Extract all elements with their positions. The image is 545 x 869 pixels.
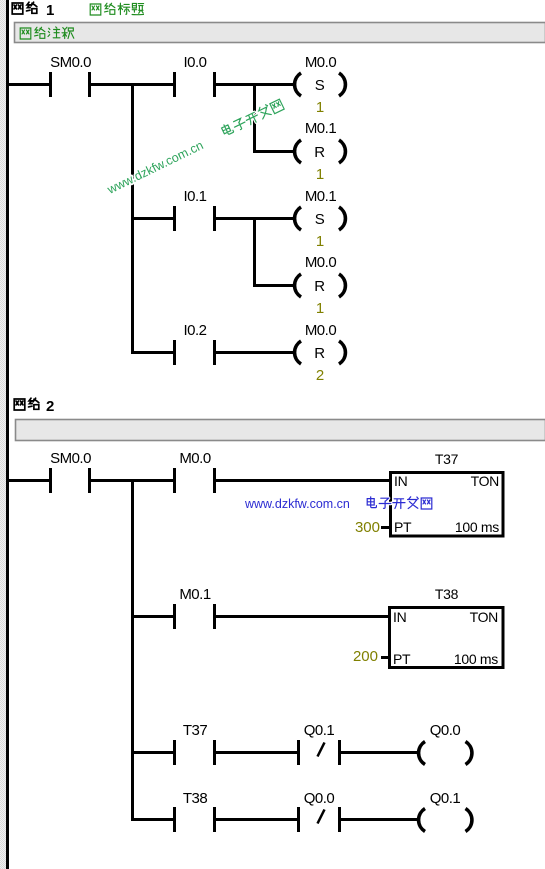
coil M0.0 R arcs row5 xyxy=(295,341,346,364)
network 1 title xyxy=(12,2,37,14)
wire I0.1 to coil M0.1 S xyxy=(216,217,293,220)
svg-text:I0.2: I0.2 xyxy=(183,322,206,339)
coil Q0.0 arcs xyxy=(419,742,472,765)
network 1 subtitle (green) xyxy=(90,3,143,15)
watermark horizontal blue www.dzkfw.com.cn xyxy=(244,497,432,511)
svg-text:IN: IN xyxy=(394,473,407,489)
svg-text:100 ms: 100 ms xyxy=(454,651,498,667)
wire T38 to Q0.0 contact xyxy=(216,818,297,821)
svg-text:1: 1 xyxy=(316,99,324,116)
contact I0.0 bar 2 xyxy=(213,72,216,97)
contact T38 bar 2 xyxy=(213,807,216,832)
svg-text:1: 1 xyxy=(316,300,324,317)
svg-text:1: 1 xyxy=(316,166,324,183)
svg-text:S: S xyxy=(315,77,325,94)
wire branch to T38 contact xyxy=(131,818,173,821)
svg-text:Q0.1: Q0.1 xyxy=(430,790,461,807)
svg-text:www.dzkfw.com.cn: www.dzkfw.com.cn xyxy=(244,497,350,511)
svg-text:T38: T38 xyxy=(435,586,459,602)
wire branch to coil M0.1 R xyxy=(253,150,293,153)
wire M0.0 to timer T37 box xyxy=(216,479,390,482)
wire M0.1 to timer T38 box xyxy=(216,615,390,618)
contact SM0.0 net2 bar 1 xyxy=(49,468,52,493)
left power rail xyxy=(6,0,9,869)
wire rail to SM0.0 xyxy=(9,83,49,86)
contact Q0.0 negated bar 1 xyxy=(297,807,300,832)
svg-text:I0.0: I0.0 xyxy=(183,54,206,71)
wire branch to coil M0.0 R xyxy=(253,284,293,287)
svg-text:Q0.0: Q0.0 xyxy=(304,790,335,807)
contact SM0.0 bar 2 xyxy=(88,72,91,97)
svg-text:M0.0: M0.0 xyxy=(305,54,337,71)
svg-text:PT: PT xyxy=(394,519,412,535)
svg-text:100 ms: 100 ms xyxy=(455,519,499,535)
timer box T37 xyxy=(391,473,504,537)
svg-text:T38: T38 xyxy=(183,790,208,807)
timer T38 texts xyxy=(393,586,498,667)
svg-text:T37: T37 xyxy=(435,451,459,467)
labels network 1 xyxy=(50,54,336,339)
svg-text:Q0.0: Q0.0 xyxy=(430,722,461,739)
coil M0.1 R arcs row2 xyxy=(295,140,346,163)
left gutter checkered strip xyxy=(0,0,6,869)
wire Q0.1 to coil Q0.0 xyxy=(341,751,418,754)
svg-text:TON: TON xyxy=(470,609,498,625)
coil M0.0 S arcs row1 xyxy=(295,73,346,96)
svg-text:SM0.0: SM0.0 xyxy=(50,54,91,71)
branch vertical row1 to M0.1 R row xyxy=(253,83,256,152)
contact SM0.0 bar 1 xyxy=(49,72,52,97)
contact T37 bar 1 xyxy=(173,740,176,765)
wire SM0.0 to I0.0 xyxy=(91,83,173,86)
svg-text:M0.0: M0.0 xyxy=(305,322,337,339)
contact SM0.0 net2 bar 2 xyxy=(88,468,91,493)
timer T37 texts xyxy=(394,451,499,535)
wire I0.0 to coil M0.0 S xyxy=(216,83,293,86)
contact I0.2 bar 1 xyxy=(173,340,176,365)
wire branch to I0.1 xyxy=(131,217,173,220)
timer box T38 xyxy=(390,608,504,668)
svg-text:S: S xyxy=(315,211,325,228)
wire branch to M0.1 xyxy=(131,615,173,618)
contact T37 bar 2 xyxy=(213,740,216,765)
svg-text:1: 1 xyxy=(316,233,324,250)
PT stub wire T37 xyxy=(381,526,390,529)
wire branch to I0.2 xyxy=(131,351,173,354)
network 2 comment box xyxy=(16,420,545,441)
contact M0.1 bar 1 xyxy=(173,604,176,629)
svg-text:M0.0: M0.0 xyxy=(305,254,337,271)
operand values (olive) network 1 xyxy=(316,99,324,384)
wire SM0.0 to M0.0 net2 xyxy=(91,479,173,482)
svg-text:M0.1: M0.1 xyxy=(305,120,337,137)
wire rail to SM0.0 net2 xyxy=(9,479,49,482)
svg-text:200: 200 xyxy=(353,648,378,665)
coil M0.0 R arcs row4 xyxy=(295,274,346,297)
branch vertical from row1 to rows I0.1/I0.2 xyxy=(131,83,134,354)
svg-text:SM0.0: SM0.0 xyxy=(50,450,91,467)
contact M0.0 bar 1 xyxy=(173,468,176,493)
contact M0.0 bar 2 xyxy=(213,468,216,493)
contact Q0.1 negated bar 2 xyxy=(338,740,341,765)
contact I0.0 bar 1 xyxy=(173,72,176,97)
svg-text:IN: IN xyxy=(393,609,406,625)
PT stub wire T38 xyxy=(381,656,390,659)
coil Q0.1 arcs xyxy=(419,809,472,832)
svg-text:M0.1: M0.1 xyxy=(179,586,211,603)
contact I0.1 bar 2 xyxy=(213,206,216,231)
coil M0.1 S arcs row3 xyxy=(295,207,346,230)
svg-text:PT: PT xyxy=(393,651,411,667)
negation slash in contact Q0.1 xyxy=(318,743,325,757)
svg-text:2: 2 xyxy=(46,398,54,415)
contact Q0.0 negated bar 2 xyxy=(338,807,341,832)
svg-text:M0.0: M0.0 xyxy=(179,450,211,467)
wire I0.2 to coil M0.0 R2 xyxy=(216,351,293,354)
wire branch to T37 contact xyxy=(131,751,173,754)
contact T38 bar 1 xyxy=(173,807,176,832)
contact I0.1 bar 1 xyxy=(173,206,176,231)
svg-text:R: R xyxy=(314,278,325,295)
wire T37 to Q0.1 contact xyxy=(216,751,297,754)
contact Q0.1 negated bar 1 xyxy=(297,740,300,765)
negation slash in contact Q0.0 xyxy=(318,810,325,824)
network 1 comment text (green) xyxy=(20,27,74,39)
svg-text:300: 300 xyxy=(355,519,380,536)
svg-text:TON: TON xyxy=(471,473,499,489)
svg-text:1: 1 xyxy=(46,2,54,19)
svg-text:2: 2 xyxy=(316,367,324,384)
branch vertical I0.1 row to M0.0 R row xyxy=(253,217,256,287)
svg-text:R: R xyxy=(314,345,325,362)
svg-text:I0.1: I0.1 xyxy=(183,188,206,205)
svg-text:R: R xyxy=(314,144,325,161)
svg-text:T37: T37 xyxy=(183,722,208,739)
branch vertical net2 rows xyxy=(131,479,134,821)
watermark diagonal green www.dzkfw.com.cn xyxy=(104,98,286,197)
network 1 comment box xyxy=(15,23,545,43)
labels network 2 xyxy=(50,450,460,807)
wire Q0.0 to coil Q0.1 xyxy=(341,818,418,821)
network 2 title xyxy=(14,398,39,410)
svg-text:M0.1: M0.1 xyxy=(305,188,337,205)
svg-text:Q0.1: Q0.1 xyxy=(304,722,335,739)
contact M0.1 bar 2 xyxy=(213,604,216,629)
contact I0.2 bar 2 xyxy=(213,340,216,365)
